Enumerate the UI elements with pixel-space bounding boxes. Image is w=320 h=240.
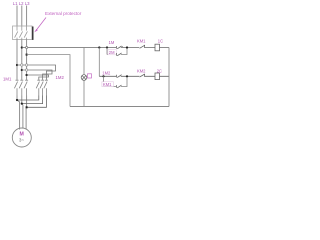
hop circle feed row 2 bbox=[25, 69, 27, 71]
row1 branch B wire bbox=[107, 48, 127, 55]
crossover wire 3 bbox=[27, 96, 47, 108]
breaker linkage bar bbox=[32, 27, 34, 40]
hop on rail at L3 bbox=[26, 46, 28, 48]
svg-text:1M2: 1M2 bbox=[56, 75, 65, 80]
wire motor line 3 bbox=[26, 96, 28, 108]
row2 branch A wire bbox=[99, 75, 169, 77]
wire phase L3 below box bbox=[26, 40, 28, 80]
node control feed 2 bbox=[26, 54, 28, 56]
wire phase L1 below box bbox=[16, 40, 18, 80]
wire motor line 2 bbox=[21, 96, 23, 104]
node row2 right bbox=[126, 75, 128, 77]
wire phase L2 below box bbox=[21, 40, 23, 80]
node crossover 3 bbox=[26, 106, 28, 108]
motor M circle bbox=[12, 128, 31, 147]
svg-text:KM2: KM2 bbox=[137, 69, 146, 74]
wire KM2 feed row 3 bbox=[27, 75, 49, 79]
label KM1 aux boxed bbox=[102, 82, 114, 87]
wire drop2 to branch B1 bbox=[106, 48, 108, 55]
node rail drop1 bbox=[98, 46, 100, 48]
node row2 drop2 bbox=[102, 75, 104, 77]
svg-text:L1 L2 L3: L1 L2 L3 bbox=[13, 1, 30, 6]
breaker pole 1 bbox=[15, 26, 18, 40]
crossover wire 1 bbox=[17, 96, 39, 101]
KM2 main contact 1 bbox=[36, 79, 40, 96]
wire bottom rail bbox=[70, 106, 169, 108]
row2 contact A bbox=[116, 76, 121, 77]
row2 contact B bbox=[116, 86, 121, 87]
wire motor line 1 bbox=[16, 96, 18, 101]
coil KM1 bbox=[155, 44, 160, 51]
svg-text:KM1: KM1 bbox=[103, 82, 112, 87]
svg-text:3~: 3~ bbox=[19, 138, 24, 143]
wire right bus bbox=[168, 48, 170, 107]
svg-text:KM1: KM1 bbox=[137, 38, 146, 43]
wire phase L2 drop bbox=[21, 6, 23, 27]
coil KM2 bbox=[155, 73, 160, 80]
wire row2 drop2 to branch B2 bbox=[103, 76, 105, 86]
arrow to breaker bbox=[36, 18, 46, 31]
node KM2 feed row 2 bbox=[21, 69, 23, 71]
wire drop1 to row2 bbox=[98, 48, 100, 77]
svg-text:External protector: External protector bbox=[45, 11, 82, 16]
wire phase L3 drop bbox=[26, 6, 28, 27]
svg-text:2M: 2M bbox=[109, 50, 115, 55]
wire KM2 feed row 1 bbox=[17, 65, 56, 79]
KM2 main contact 3 bbox=[44, 79, 48, 96]
breaker pole 3 bbox=[24, 26, 27, 40]
KM2 main contact 2 bbox=[40, 79, 44, 96]
breaker box QS bbox=[13, 26, 33, 40]
node row1 right bbox=[126, 46, 128, 48]
hop circles feed row 1 bbox=[21, 64, 23, 66]
wire phase L1 drop bbox=[16, 6, 18, 27]
wire control rail top bbox=[22, 47, 169, 49]
row2 branch B wire bbox=[104, 76, 128, 86]
label 2M boxed bbox=[108, 50, 116, 55]
node KM2 feed row 1 bbox=[16, 64, 18, 66]
crossover wire 2 bbox=[22, 96, 43, 104]
lamp symbol bbox=[81, 75, 87, 81]
node control feed 1 bbox=[21, 46, 23, 48]
label lamp box bbox=[88, 74, 92, 78]
svg-text:1M: 1M bbox=[109, 40, 115, 45]
KM1 main contact 1 bbox=[14, 79, 18, 96]
row1 contact A on rail bbox=[116, 47, 121, 48]
breaker pole 2 bbox=[19, 26, 22, 40]
row1 contact B bbox=[116, 54, 121, 55]
node crossover 1 bbox=[16, 99, 18, 101]
row2 NC contact bbox=[139, 76, 144, 77]
svg-text:1C: 1C bbox=[158, 38, 163, 43]
wire control feed 2 to bottom rail corner bbox=[27, 55, 70, 107]
svg-text:1M2: 1M2 bbox=[102, 71, 111, 76]
svg-text:1M1: 1M1 bbox=[3, 77, 12, 82]
KM1 main contact 2 bbox=[19, 79, 23, 96]
row1 NC contact bbox=[139, 47, 144, 48]
node KM2 feed row 3 bbox=[26, 74, 28, 76]
node rail drop2 bbox=[106, 46, 108, 48]
lamp branch wire bbox=[83, 48, 85, 107]
node crossover 2 bbox=[21, 103, 23, 105]
wire KM2 feed row 2 bbox=[22, 70, 52, 79]
KM1 main contact 3 bbox=[24, 79, 28, 96]
